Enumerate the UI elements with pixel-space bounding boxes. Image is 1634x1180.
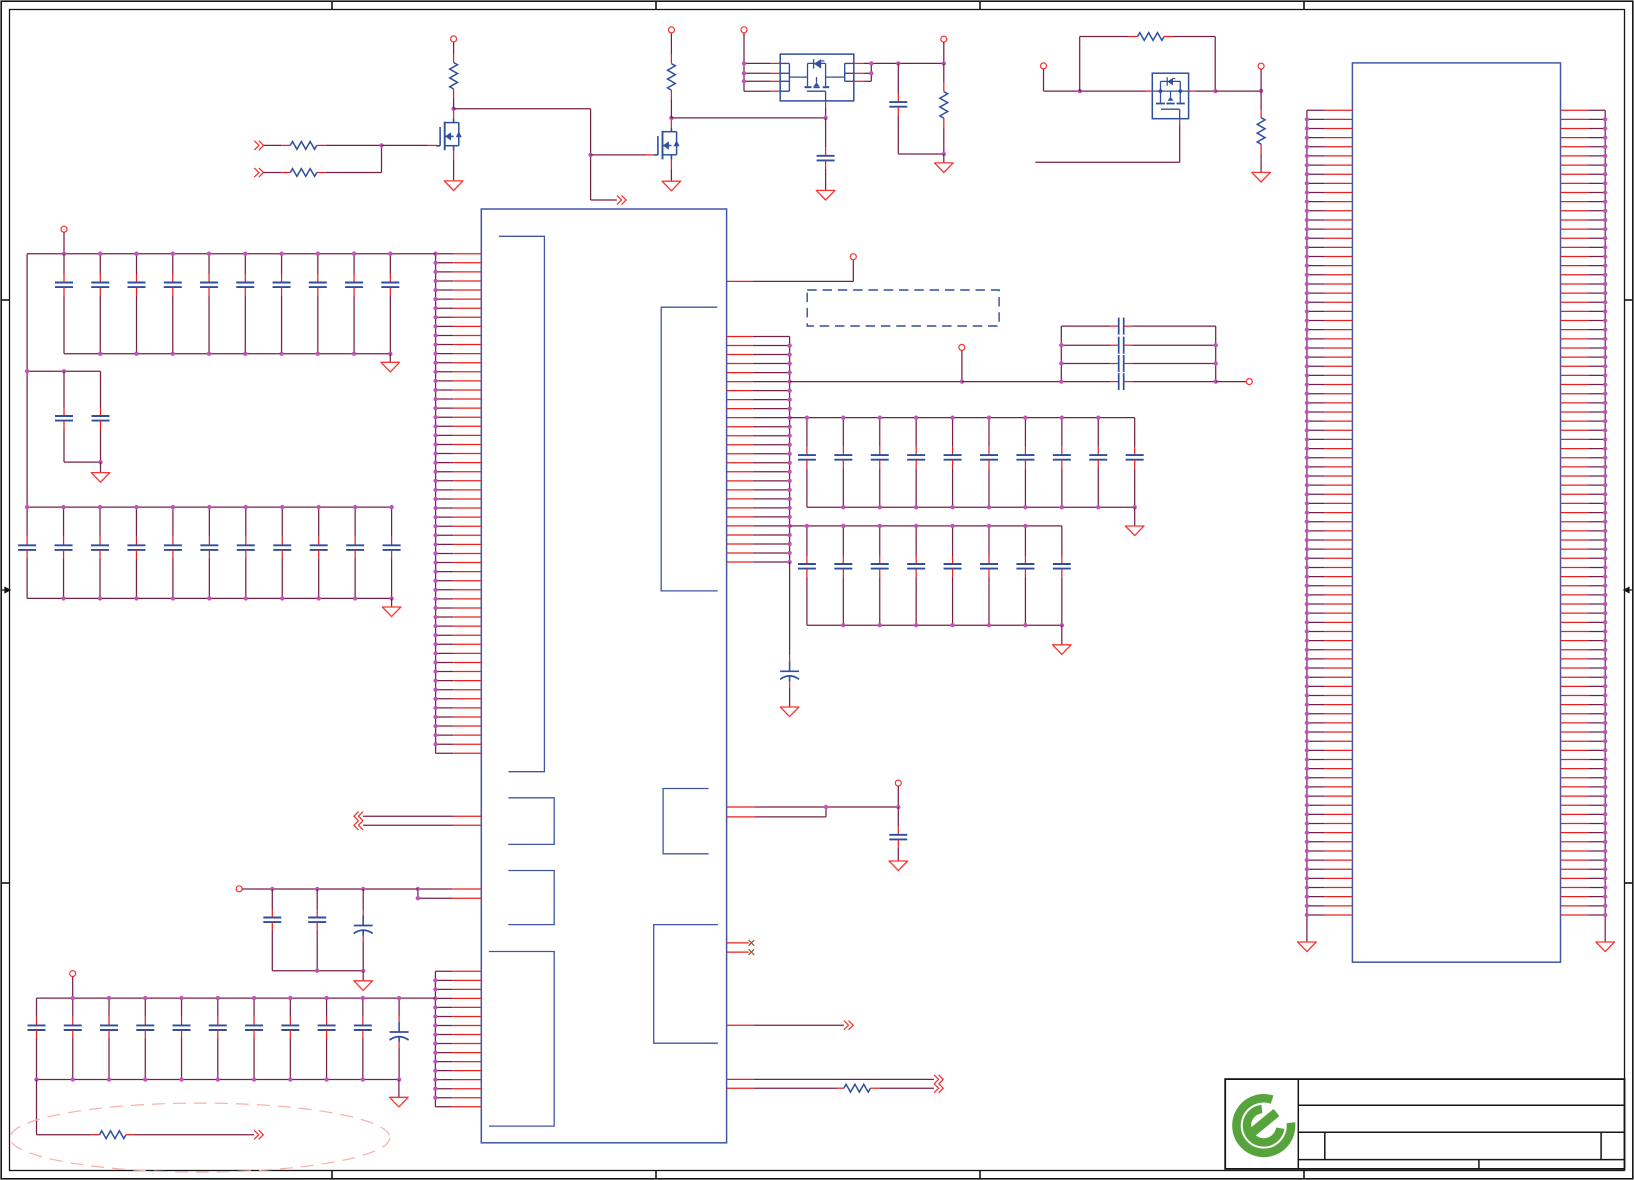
ground U2 left bus — [1298, 942, 1317, 952]
wire U1 pin to port P5 — [454, 824, 482, 826]
capacitor C5 — [944, 418, 962, 508]
wire U1 pin row joins node B — [727, 816, 756, 818]
capacitor bank A bottom rail — [807, 506, 1135, 508]
bottom bank bottom rail — [37, 1079, 399, 1081]
wire Q3 pin3 to tie node — [864, 80, 872, 82]
U2 left pin bus — [1306, 110, 1308, 942]
ground bank2 — [91, 473, 110, 483]
wire node G1 to Q1 gate — [382, 144, 428, 146]
wire node D2 to Q3 gate node — [671, 117, 825, 119]
Q3 right pin stubs — [854, 62, 864, 64]
capacitor C53 (rotated) — [1061, 325, 1110, 327]
junction node N5 — [1078, 89, 1082, 93]
wire U1 pin row to node B — [727, 806, 756, 808]
junction node N6 — [1213, 89, 1217, 93]
capacitor C14 — [907, 526, 925, 625]
capacitor C20 — [91, 254, 109, 354]
junctions bottom bank bottom rail — [34, 1077, 38, 1081]
junctions mini bank rail — [270, 887, 274, 891]
junction node N2 (cap branch) — [896, 61, 900, 65]
ground bank B — [1053, 645, 1072, 655]
U1 inner block 5 — [489, 952, 554, 1127]
wire Q1 source to ground — [453, 151, 455, 160]
resistor R9 — [100, 1131, 127, 1139]
U1 right pin array (field) — [727, 337, 792, 565]
junctions node A — [416, 887, 420, 891]
wire bus to rotated cap block — [790, 381, 962, 383]
wire rotated block to terminal T9 — [1216, 381, 1247, 383]
wire U1 pin to port P4 — [454, 815, 482, 817]
wire bank B to ground — [1061, 625, 1063, 645]
capacitor C25 — [273, 254, 291, 354]
capacitor C22 — [164, 254, 182, 354]
capacitor C34 — [127, 507, 145, 598]
resistor R8 — [844, 1084, 871, 1092]
junction node N7 — [1259, 89, 1263, 93]
capacitor bank A top rail — [790, 417, 1135, 419]
transistor Q2 (NMOS) — [654, 128, 680, 160]
capacitor C26 — [309, 254, 327, 354]
zone tick marks right edge — [1625, 299, 1633, 301]
wire R3 to node G1 — [317, 144, 326, 146]
resistor R1 above Q1 — [453, 98, 455, 109]
junctions bottom bank top rail — [71, 996, 75, 1000]
dashed option box — [807, 290, 999, 326]
wire node N5 to Q4 — [1080, 90, 1146, 92]
resistor R7 — [1260, 91, 1262, 109]
wire U1 pin to port P7 — [727, 1078, 754, 1080]
transistor Q3 (dual PMOS package) — [780, 54, 854, 101]
capacitor C49 — [173, 998, 191, 1079]
junctions bank1 bottom rail — [98, 352, 102, 356]
capacitor C12 — [834, 526, 852, 625]
wire C52 down to ground rail — [897, 107, 899, 116]
capacitor C39 — [310, 507, 328, 598]
junction at join — [824, 805, 828, 809]
U1 inner block 7 — [654, 925, 718, 1044]
zone tick marks left edge — [1, 299, 9, 301]
U2 right pin bus — [1604, 110, 1606, 942]
wire Q4 source pin down and left — [1179, 119, 1181, 125]
U1 inner block 1 — [499, 236, 544, 771]
U2 right pin array — [1561, 110, 1608, 942]
wires T3 bus to Q3 left pins — [744, 62, 771, 64]
wire R4 up to node G1 — [317, 172, 326, 174]
capacitor C13 — [871, 526, 889, 625]
capacitor C41 — [383, 507, 401, 598]
transistor Q1 (NMOS) — [436, 119, 462, 151]
wire T4 to node N1 — [943, 42, 945, 63]
terminal T13 — [70, 971, 76, 977]
Q3 left pin stubs — [771, 62, 780, 64]
capacitor C51 — [817, 155, 835, 157]
U2 left pin array — [1305, 110, 1353, 942]
port P9 (>>) — [254, 1130, 259, 1139]
terminal T5 (power) — [1041, 63, 1047, 69]
feedback loop wire right side — [1164, 36, 1173, 38]
resistor R3 — [290, 142, 317, 150]
capacitor C10 — [1126, 418, 1144, 508]
left bus down from bank1 rail — [26, 254, 28, 507]
terminal T1 (power) — [451, 36, 457, 42]
wire P1 to R3 — [264, 144, 282, 146]
terminal T4 (power) — [941, 36, 947, 42]
capacitor C45 — [28, 998, 46, 1079]
IC U1 body — [481, 209, 726, 1143]
junctions bank3 bottom rail — [61, 596, 65, 600]
capacitor C15 — [944, 526, 962, 625]
wire to port P3 — [591, 199, 617, 201]
junctions bank3 top rail — [25, 505, 29, 509]
ground U2 right bus — [1596, 942, 1615, 952]
bottom bank top rail — [37, 997, 436, 999]
capacitor C23 — [200, 254, 218, 354]
wire Q2 drain to node D2 — [670, 118, 672, 128]
highlight ellipse (dashed) — [10, 1103, 390, 1172]
wire R9 to port P9 — [126, 1134, 135, 1136]
capacitor C30 — [92, 371, 110, 462]
wire Q4 right pin to node N6 — [1189, 90, 1196, 92]
junction node D1 — [451, 107, 455, 111]
U1 inner block 4 — [508, 871, 554, 925]
capacitor C28 — [381, 254, 399, 354]
U1 right pin bus — [789, 337, 791, 563]
wire node N6 to node N7 — [1215, 90, 1261, 92]
wire C51 to ground — [825, 160, 827, 169]
wire node D1 to Q2 gate branch — [454, 108, 591, 110]
junctions bank A bottom rail — [841, 505, 845, 509]
U1 lower-left pin bus — [434, 971, 436, 1106]
capacitor C38 — [273, 507, 291, 598]
right rail of rotated cap block — [1215, 326, 1217, 382]
junctions bank A top rail — [805, 415, 809, 419]
terminal T10 — [895, 780, 901, 786]
junctions on U1 right pin bus — [787, 343, 791, 347]
wire Q3 pin1 to node N1 — [864, 62, 944, 64]
junction node N3 — [823, 116, 827, 120]
capacitor C9 — [1089, 418, 1107, 508]
capacitor C11 — [798, 526, 816, 625]
wire ground rail to node N4 — [898, 153, 944, 155]
wire node N3 down to C51 — [825, 118, 827, 147]
ground below Q1 — [444, 181, 463, 191]
capacitor C1 — [798, 418, 816, 508]
junctions at Q3 output tie — [869, 61, 873, 65]
port P4 (<< left) — [359, 812, 364, 821]
capacitor C35 — [164, 507, 182, 598]
capacitor C6 — [980, 418, 998, 508]
terminal T12 — [236, 886, 242, 892]
wire U1 pin to port P6 — [727, 1024, 754, 1026]
junctions on T3 bus — [742, 61, 746, 65]
wire P2 to R4 — [264, 172, 282, 174]
U1 inner block 6 — [663, 789, 709, 854]
wire Q1 drain to node D1 — [453, 109, 455, 119]
capacitor C19 — [55, 254, 73, 354]
terminal T2 (power) — [668, 27, 674, 33]
wire Q3 gate down to node N3 — [825, 101, 827, 107]
bank3 bottom rail — [27, 597, 392, 599]
bank3 top rail — [27, 506, 392, 508]
wire bottom bank to ground — [398, 1080, 400, 1098]
wire T11 down to bank1 rail — [63, 232, 65, 254]
capacitor C56 (rotated) — [1061, 381, 1110, 383]
wire R8 to port P8 — [870, 1087, 879, 1089]
terminal T8 — [959, 344, 965, 350]
junction node N4 — [942, 152, 946, 156]
wire bank2 to ground — [100, 462, 102, 473]
mini bank bottom rail — [272, 970, 363, 972]
centering arrow left edge — [1, 587, 10, 592]
capacitor C33 — [91, 507, 109, 598]
capacitor C37 — [237, 507, 255, 598]
resistor R2 above Q2 — [670, 99, 672, 118]
port P8 (>>) — [934, 1084, 939, 1093]
title block frame — [1225, 1079, 1625, 1169]
capacitor C18 — [1053, 526, 1071, 625]
terminal T7 — [850, 254, 856, 260]
capacitor C48 — [136, 998, 154, 1079]
junctions on U2 left pin bus — [1305, 117, 1309, 121]
polarized capacitor C50 — [390, 998, 409, 1079]
mini bank rail — [242, 888, 418, 890]
capacitor C2 — [834, 418, 852, 508]
wire mini bank to ground — [362, 971, 364, 981]
terminal T6 (power) — [1258, 63, 1264, 69]
wire T6 down to node N7 — [1260, 69, 1262, 91]
capacitor C42 — [263, 889, 281, 971]
port P1 (input >>) — [254, 141, 259, 150]
ground bank3 — [382, 607, 401, 617]
ground below R7 — [1252, 172, 1271, 182]
U1 inner block 3 — [508, 798, 554, 845]
junctions mini bank bottom — [315, 969, 319, 973]
wire T5 to Q4 left pin — [1043, 69, 1045, 91]
ground mini bank — [354, 981, 373, 991]
wire U1 pin to terminal T7 — [727, 280, 753, 282]
junctions on U1 lower-left pin bus — [433, 978, 437, 982]
capacitor C40 — [346, 507, 364, 598]
junction T11 on rail — [62, 252, 66, 256]
capacitor bank B top rail — [790, 525, 1062, 527]
capacitor bank B bottom rail — [807, 624, 1062, 626]
zone tick marks bottom edge — [331, 1171, 333, 1179]
U1 no-connect pin 1 — [727, 942, 749, 944]
ground bank A — [1125, 526, 1144, 536]
wire Q3 pin2 to tie node — [864, 72, 872, 74]
port P3 (output >>) — [617, 195, 622, 204]
junction node G1 — [379, 143, 383, 147]
terminal T11 (power) — [61, 226, 67, 232]
U1 left pin array (lower field) — [433, 971, 481, 1106]
rotated capacitor block C53-C56 — [1059, 318, 1218, 391]
junctions bank B bottom rail — [841, 623, 845, 627]
U1 right bus tail — [789, 562, 791, 655]
junction node D2 — [669, 116, 673, 120]
wire node G2 to Q2 gate — [591, 154, 646, 156]
zone tick marks top edge — [331, 1, 333, 9]
capacitor C4 — [907, 418, 925, 508]
U1 left pin bus — [435, 254, 437, 754]
wire T13 down to rail — [72, 977, 74, 999]
wire bank left down to R9 — [36, 1080, 38, 1135]
polarized capacitor C44 — [354, 889, 373, 971]
junction bank2 bottom — [98, 460, 102, 464]
capacitor C29 — [55, 371, 73, 462]
junctions on U2 right pin bus — [1603, 117, 1607, 121]
wire to left rail of rotated caps — [962, 381, 1061, 383]
port P2 (input >>) — [254, 168, 259, 177]
capacitor C7 — [1016, 418, 1034, 508]
terminal T3 (power) — [741, 27, 747, 33]
left rail of rotated cap block — [1060, 326, 1062, 382]
junctions bank1 top rail — [98, 252, 102, 256]
ground below Q2 — [662, 181, 681, 191]
capacitor C17 — [1016, 526, 1034, 625]
wire bank3 to ground — [391, 598, 393, 607]
wire T8 down — [961, 350, 963, 381]
wire U1 pin row to node A lower — [452, 897, 481, 899]
port P5 (<< left) — [359, 821, 364, 830]
bank1 top rail — [27, 253, 436, 255]
IC U2 body — [1352, 63, 1560, 962]
company logo — [1236, 1098, 1291, 1153]
wire bank A to ground — [1134, 507, 1136, 526]
bank1 bottom rail — [64, 353, 390, 355]
capacitor C21 — [128, 254, 146, 354]
resistor R4 — [290, 169, 317, 177]
ground below C51 — [816, 190, 835, 200]
capacitor C51 — [245, 998, 263, 1079]
junction T8 node — [960, 379, 964, 383]
capacitor C54 (rotated) — [1061, 344, 1110, 346]
ground below R5 — [935, 163, 954, 173]
ground below C58 — [889, 861, 908, 871]
capacitor C8 — [1053, 418, 1071, 508]
U1 no-connect pin 2 — [727, 951, 749, 953]
junction node B — [896, 805, 900, 809]
capacitor C32 — [55, 507, 73, 598]
port P6 (>>) — [844, 1021, 849, 1030]
capacitor C46 — [64, 998, 82, 1079]
junction node N1 — [942, 61, 946, 65]
polarized capacitor C57 — [780, 655, 799, 707]
wire T3 down to Q3 pins — [743, 33, 745, 91]
wire node N2 down to C52 — [897, 63, 899, 93]
capacitor C36 — [200, 507, 218, 598]
ground bank1 — [381, 362, 400, 372]
junctions bank2 feed — [25, 369, 29, 373]
capacitor C47 — [100, 998, 118, 1079]
bank2 bottom rail — [64, 461, 101, 463]
wire T10 down to node B — [897, 786, 899, 807]
U1 left pin array (upper field) — [433, 252, 481, 754]
ground bottom bank — [390, 1097, 409, 1107]
centering arrow right edge — [1624, 587, 1633, 592]
bank2 feed rail — [27, 370, 100, 372]
transistor Q4 (PMOS package) — [1152, 73, 1188, 119]
U1 inner block 2 — [661, 307, 718, 591]
resistor R5 — [943, 63, 945, 82]
wire U1 pin to R8 — [727, 1087, 754, 1089]
capacitor C53 — [318, 998, 336, 1079]
wire bank1 to ground — [389, 354, 391, 363]
capacitor C16 — [980, 526, 998, 625]
junctions bank B top rail — [805, 524, 809, 528]
resistor R6 — [1138, 33, 1165, 41]
capacitor C52 — [889, 101, 907, 103]
junctions on rotated cap rails — [1059, 343, 1063, 347]
capacitor C55 (rotated) — [1061, 363, 1110, 365]
capacitor C54 — [354, 998, 372, 1079]
capacitor C3 — [871, 418, 889, 508]
wire node N4 to ground — [943, 154, 945, 163]
feedback loop wire up and over R6 — [1079, 37, 1081, 92]
capacitor C43 — [308, 889, 326, 971]
capacitor C52 — [281, 998, 299, 1079]
capacitor C27 — [345, 254, 363, 354]
capacitor C58 — [897, 807, 899, 826]
wire U1 pin row to cap rail node A — [452, 888, 481, 890]
port P7 (>>) — [934, 1075, 939, 1084]
capacitor C24 — [236, 254, 254, 354]
capacitor C31 — [18, 507, 36, 598]
ground below C57 — [780, 707, 799, 717]
junction node G2 — [588, 153, 592, 157]
terminal T9 — [1246, 379, 1252, 385]
capacitor C50 — [209, 998, 227, 1079]
wire Q2 source to ground — [670, 160, 672, 169]
junctions on U1 left pin bus — [433, 252, 437, 256]
